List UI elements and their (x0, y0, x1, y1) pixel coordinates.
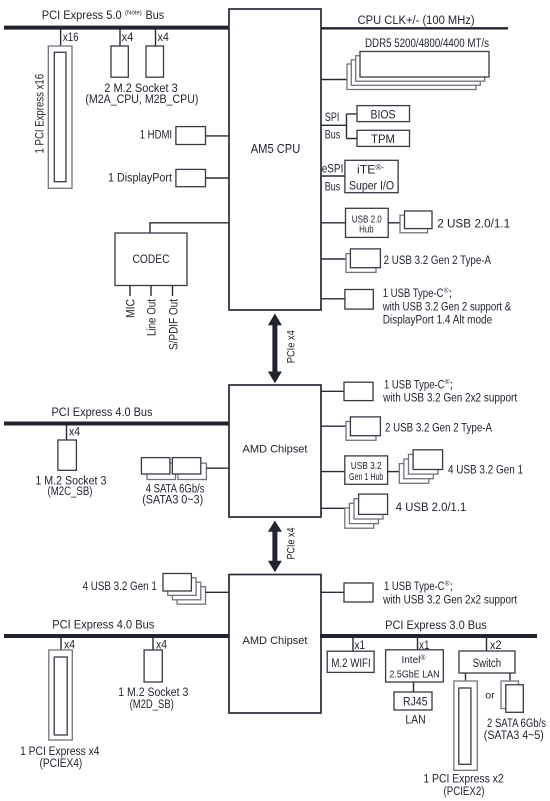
svg-text:4 USB 2.0/1.1: 4 USB 2.0/1.1 (396, 500, 467, 514)
svg-text:(M2A_CPU, M2B_CPU): (M2A_CPU, M2B_CPU) (85, 92, 198, 106)
svg-text:;: ; (450, 377, 453, 391)
wire CODEC to CPU (150, 223, 229, 233)
M.2 WIFI box (327, 651, 374, 672)
bus PCI Express 4.0 (4, 422, 229, 426)
M.2 socket M2A_CPU (111, 46, 128, 77)
wire x4 drop PCIEX4 (60, 638, 62, 650)
svg-text:PCI Express 5.0: PCI Express 5.0 (42, 8, 122, 22)
svg-text:4 USB 3.2 Gen 1: 4 USB 3.2 Gen 1 (448, 463, 523, 477)
wire S/PDIF stub (172, 286, 174, 297)
svg-text:with USB 3.2 Gen 2x2 support: with USB 3.2 Gen 2x2 support (382, 391, 517, 405)
2 USB 2.0 port stack (400, 211, 432, 233)
wire SPI split (321, 114, 357, 139)
2 USB 3.2 Gen 2 Type-A stack (chipset1) (346, 417, 380, 440)
svg-text:Bus: Bus (325, 128, 341, 142)
svg-text:CPU CLK+/- (100 MHz): CPU CLK+/- (100 MHz) (358, 13, 475, 27)
wire x4 drop M2A (119, 29, 121, 46)
wire HDMI to CPU (206, 135, 230, 137)
wire x4 drop M2C (66, 425, 68, 440)
wire DisplayPort to CPU (206, 177, 230, 179)
svg-text:RJ45: RJ45 (403, 695, 428, 709)
svg-text:x1: x1 (355, 638, 366, 652)
svg-text:Hub: Hub (359, 224, 374, 235)
svg-text:1 PCI Express x16: 1 PCI Express x16 (33, 74, 47, 154)
svg-text:Super I/O: Super I/O (349, 179, 394, 193)
USB Type-C port (chipset1) (344, 382, 373, 400)
wire hub to USB ports (388, 222, 400, 224)
svg-text:x4: x4 (158, 30, 170, 44)
svg-text:AM5 CPU: AM5 CPU (251, 142, 301, 156)
svg-text:eSPI: eSPI (322, 162, 344, 176)
SATA port stack A (141, 458, 175, 480)
svg-text:(SATA3 4~5): (SATA3 4~5) (484, 728, 544, 742)
USB 2.0 Hub (346, 208, 389, 237)
svg-text:(PCIEX4): (PCIEX4) (40, 756, 83, 770)
USB Type-C port (chipset2) (344, 583, 373, 602)
svg-text:1 USB Type-C: 1 USB Type-C (384, 579, 445, 593)
wire chipset to Gen1 hub (321, 471, 345, 473)
svg-text:MIC: MIC (124, 299, 138, 318)
wire Gen1 stack to chipset2 (206, 591, 230, 593)
wire chipset2 to Type-C (321, 591, 344, 593)
wire x16 drop (60, 29, 62, 46)
SATA port stack B (172, 458, 206, 480)
wire SATA to chipset (206, 467, 229, 469)
svg-text:PCIe x4: PCIe x4 (286, 528, 298, 560)
svg-text:Gen 1 Hub: Gen 1 Hub (349, 472, 384, 483)
svg-text:CODEC: CODEC (133, 252, 170, 266)
svg-text:4 USB 3.2 Gen 1: 4 USB 3.2 Gen 1 (83, 579, 157, 593)
wire CPU CLK line (321, 27, 508, 29)
wire chipset to USB 3.2 Gen 2 (321, 425, 346, 427)
svg-text:AMD Chipset: AMD Chipset (243, 444, 309, 456)
svg-text:2 USB 2.0/1.1: 2 USB 2.0/1.1 (437, 217, 510, 231)
svg-text:PCI Express 4.0 Bus: PCI Express 4.0 Bus (52, 617, 154, 631)
svg-text:(Note): (Note) (125, 10, 142, 17)
svg-text:PCI Express 3.0 Bus: PCI Express 3.0 Bus (385, 618, 487, 632)
svg-text:or: or (485, 690, 495, 702)
svg-text:Bus: Bus (325, 180, 341, 194)
svg-text:PCIe x4: PCIe x4 (286, 330, 298, 363)
PCI Express x2 slot PCIEX2 (454, 681, 477, 770)
svg-text:(SATA3 0~3): (SATA3 0~3) (142, 493, 203, 507)
wire chipset to USB 2.0 stack (321, 507, 345, 509)
svg-text:x2: x2 (490, 638, 502, 652)
wire CPU to USB 3.2 Gen2 (321, 258, 346, 260)
svg-text:x4: x4 (69, 425, 80, 439)
RJ45 box (394, 692, 432, 710)
svg-text:SPI: SPI (325, 110, 340, 124)
bus PCI Express 5.0 (4, 26, 229, 30)
svg-text:1 USB Type-C: 1 USB Type-C (383, 286, 444, 300)
CODEC U2 (115, 233, 187, 286)
svg-text:Line Out: Line Out (145, 299, 159, 336)
svg-text:DisplayPort 1.4 Alt mode: DisplayPort 1.4 Alt mode (383, 313, 493, 327)
HDMI port box (176, 127, 206, 145)
label 1 USB Type-C chipset1 (382, 377, 517, 404)
PCI Express x16 slot (48, 46, 72, 188)
svg-text:USB 3.2: USB 3.2 (351, 461, 382, 472)
svg-text:AMD Chipset: AMD Chipset (243, 635, 309, 647)
svg-text:(M2D_SB): (M2D_SB) (130, 697, 174, 711)
4 USB 2.0 port stack (345, 494, 388, 528)
PCI Express x4 slot PCIEX4 (49, 650, 73, 740)
M.2 socket M2C_SB (58, 440, 77, 470)
arrow PCIe x4 chipset-chipset (268, 521, 282, 573)
svg-text:Switch: Switch (473, 656, 502, 670)
svg-text:;: ; (450, 579, 453, 593)
svg-text:DDR5 5200/4800/4400 MT/s: DDR5 5200/4800/4400 MT/s (365, 36, 489, 50)
svg-text:2 USB 3.2 Gen 2 Type-A: 2 USB 3.2 Gen 2 Type-A (384, 253, 492, 267)
LAN controller Intel 2.5GbE (386, 650, 444, 682)
DisplayPort box (176, 169, 206, 186)
2 SATA port stack (501, 681, 523, 712)
svg-text:PCI Express 4.0 Bus: PCI Express 4.0 Bus (52, 405, 153, 419)
USB Type-C port (CPU) (345, 290, 373, 310)
wire switch to PCIEX2 (465, 673, 467, 681)
arrow PCIe x4 CPU-chipset (268, 314, 282, 384)
wire switch to SATA (509, 673, 511, 682)
svg-text:M.2 WIFI: M.2 WIFI (331, 656, 370, 670)
svg-text:1 DisplayPort: 1 DisplayPort (108, 170, 172, 184)
svg-text:Bus: Bus (146, 8, 165, 22)
wire eSPI (321, 175, 345, 177)
svg-text:1 USB Type-C: 1 USB Type-C (384, 377, 445, 391)
wire x4 drop M2D (152, 638, 154, 650)
M.2 socket M2B_CPU (146, 46, 164, 77)
wire DDR5 (321, 79, 347, 81)
wire hub to Gen1 stack (388, 471, 400, 473)
wire MIC stub (129, 286, 131, 297)
bus PCI Express 4.0 bottom (4, 634, 229, 638)
chipset U4 AMD Chipset 2 (229, 575, 321, 714)
DDR5 DIMM stack (347, 52, 489, 90)
svg-text:(PCIEX2): (PCIEX2) (444, 784, 485, 798)
svg-text:LAN: LAN (405, 712, 425, 726)
svg-text:S/PDIF Out: S/PDIF Out (167, 299, 181, 350)
label 1 USB Type-C CPU (382, 286, 512, 327)
wire LAN to RJ45 (413, 682, 415, 692)
svg-text:2 USB 3.2 Gen 2 Type-A: 2 USB 3.2 Gen 2 Type-A (385, 421, 493, 435)
label eSPI Bus (322, 162, 344, 194)
svg-text:1 HDMI: 1 HDMI (140, 127, 172, 141)
M.2 socket M2D_SB (144, 650, 162, 682)
svg-text:x4: x4 (122, 30, 134, 44)
wire CPU to Type-C (321, 298, 345, 300)
wire x1 drop LAN (417, 638, 419, 650)
USB 3.2 Gen 1 Hub (345, 456, 388, 484)
PCI Express 5.0 bus label (42, 8, 164, 22)
svg-text:2.5GbE LAN: 2.5GbE LAN (389, 669, 439, 681)
svg-text:;: ; (449, 286, 452, 300)
wire x4 drop M2B (155, 29, 157, 46)
wire x2 drop Switch (486, 638, 488, 651)
wire chipset to Type-C (321, 390, 344, 392)
4 USB 3.2 Gen 1 port stack left (163, 574, 206, 605)
label SPI Bus (325, 110, 341, 142)
svg-text:x16: x16 (63, 30, 79, 44)
wire Line Out stub (150, 286, 152, 297)
2 USB 3.2 Gen 2 Type-A stack (CPU) (346, 249, 380, 273)
wire CPU to USB2 hub (321, 222, 346, 224)
wire x1 drop M.2 WIFI (352, 638, 354, 651)
svg-text:with USB 3.2 Gen 2 support &: with USB 3.2 Gen 2 support & (382, 299, 512, 313)
CPU U1 AM5 CPU (229, 9, 321, 310)
svg-text:(M2C_SB): (M2C_SB) (48, 484, 93, 498)
TPM box (357, 130, 410, 146)
svg-text:TPM: TPM (371, 132, 395, 146)
svg-text:with USB 3.2 Gen 2x2 support: with USB 3.2 Gen 2x2 support (382, 592, 517, 606)
label 1 USB Type-C chipset2 (382, 579, 517, 606)
Super I/O U iTE (345, 160, 398, 192)
bus PCI Express 3.0 (320, 634, 537, 638)
4 USB 3.2 Gen 1 port stack (399, 450, 442, 484)
svg-text:BIOS: BIOS (371, 108, 396, 122)
chipset U3 AMD Chipset (229, 385, 321, 517)
Switch box (459, 651, 515, 673)
BIOS box (357, 106, 410, 122)
